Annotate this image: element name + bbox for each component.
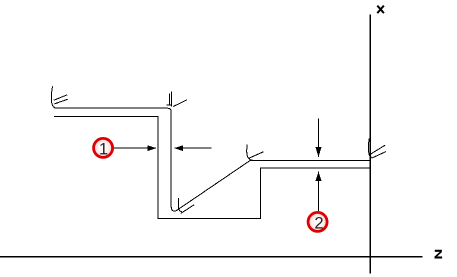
dimension 1 left leader line — [114, 147, 149, 149]
left end tick lower — [54, 99, 68, 104]
top corner tick horizontal — [167, 104, 172, 106]
offset profile main path — [51, 86, 370, 211]
x axis — [369, 15, 371, 274]
dimension 1 left arrowhead — [147, 145, 156, 151]
bottom curl tick stem — [178, 198, 182, 212]
top corner tick vertical B — [170, 92, 172, 107]
dimension 2 down arrowhead — [316, 147, 322, 157]
top corner tick vertical A — [168, 94, 170, 106]
right end curl at axis — [368, 139, 371, 158]
mid curl tick diagonal — [249, 152, 263, 158]
mid curl at diagonal-to-horizontal junction — [247, 144, 253, 160]
top corner tick diagonal — [173, 100, 187, 107]
part profile outline — [54, 116, 370, 218]
right end tick lower — [372, 152, 387, 159]
z axis label — [435, 251, 443, 258]
dimension 2 up arrowhead — [316, 171, 322, 181]
bottom curl tick diagonal — [181, 205, 194, 214]
dimension 1 right tail line — [182, 147, 212, 149]
dimension 2 up stem — [318, 180, 320, 211]
dimension 1 right arrowhead — [174, 145, 183, 151]
left end tick upper — [54, 95, 67, 100]
x axis label — [377, 6, 384, 14]
dimension 2 down stem — [318, 118, 320, 147]
z axis — [0, 256, 423, 258]
right end tick upper — [371, 145, 386, 154]
callout circle 2 — [308, 212, 327, 231]
callout circle 1 — [94, 138, 113, 157]
